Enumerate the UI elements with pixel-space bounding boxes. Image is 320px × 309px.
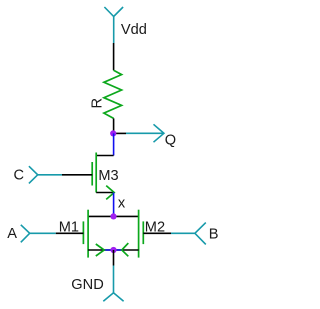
wire Vdd to resistor [113,43,115,70]
transistor M1 [56,210,88,258]
svg-text:C: C [14,168,25,184]
M3 source lead [96,192,113,194]
M3 gate wire [62,174,92,176]
M1 channel [87,210,89,258]
svg-text:B: B [209,226,219,242]
node A (drain node, purple junction) [110,130,116,136]
svg-text:M3: M3 [98,168,118,184]
svg-text:Q: Q [165,133,176,149]
resistor R [104,70,122,118]
bottom rail M1/M2 sources [88,249,139,251]
svg-text:Vdd: Vdd [121,22,147,38]
M2 channel [138,210,140,258]
output port Q [126,124,164,142]
node B (source node, purple junction) [110,247,116,253]
svg-text:x: x [118,196,126,212]
wire node to Q port [113,132,126,134]
transistor M3 [62,153,114,200]
input port B [171,223,206,245]
M1 gate plate [82,221,84,244]
top rail M1/M2 drains [88,215,139,217]
M3 source arrow [106,186,114,200]
M2 gate plate [142,221,144,244]
M3 drain lead [96,155,113,157]
M2 gate wire [143,232,171,234]
wire source node segment (blue) [104,249,122,251]
wire resistor to node Q [113,118,115,133]
power port Vdd [104,7,123,43]
ground port GND [103,266,123,302]
svg-text:A: A [7,226,17,242]
M3 gate plate [91,162,93,186]
wire node to M3 drain (blue) [113,133,115,155]
M3 channel [95,153,97,193]
svg-text:GND: GND [71,277,103,293]
node x (purple junction) [110,213,116,219]
M1 gate wire [56,232,84,234]
transistor M2 [139,210,171,258]
M2 source arrow [122,243,129,256]
svg-text:R: R [89,98,105,109]
svg-text:M2: M2 [145,219,165,235]
M1 source arrow [96,244,104,256]
wire node to GND [113,250,115,266]
input port A [21,225,56,243]
input port C [29,166,62,183]
svg-text:M1: M1 [59,219,79,235]
wire M3 source to node x (blue) [113,193,115,217]
